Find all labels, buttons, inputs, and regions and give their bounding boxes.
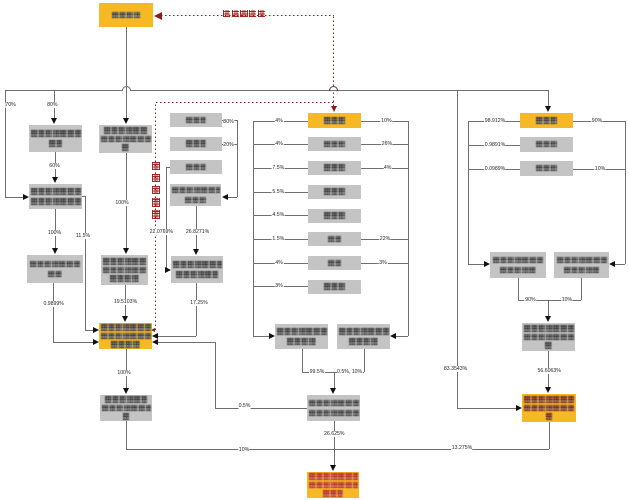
wire row1 r bbox=[361, 121, 408, 122]
red text 担任副总裁 bbox=[223, 10, 230, 17]
label 99.5% bbox=[309, 369, 325, 375]
box 芯空间（浙江）股权投资有限公司 bbox=[522, 323, 575, 351]
wire left person bus v bbox=[253, 121, 254, 337]
label 4.5% bbox=[272, 212, 285, 218]
label 0.9891% bbox=[484, 142, 505, 148]
box 倪鹏飞 bbox=[170, 160, 222, 174]
box 宁波芯空间造芯创业投资合伙企业 bbox=[522, 394, 576, 422]
arrowhead d (126,254.5) bbox=[123, 248, 129, 254]
label 11.5% bbox=[75, 233, 90, 239]
label 90% bbox=[591, 118, 602, 124]
wire 上海芯齐 down bbox=[334, 421, 335, 449]
label 100% bbox=[47, 230, 61, 236]
wire right person bus v bbox=[408, 121, 409, 337]
arrowhead d (548,393.5) bbox=[545, 387, 551, 393]
wire 83.3543% horiz bbox=[457, 408, 516, 409]
arrowhead l (222,197) bbox=[222, 194, 228, 200]
arrowhead l (152,342) bbox=[152, 339, 158, 345]
arrowhead d (548,112) bbox=[545, 106, 551, 112]
box 吴莎莉 bbox=[520, 161, 573, 176]
box 肖凯 bbox=[308, 232, 361, 246]
label 4% bbox=[275, 141, 284, 147]
wire 聚源盛鑫 down bbox=[126, 421, 127, 449]
arrowhead r (29,197) bbox=[23, 194, 29, 200]
wire 26.8271% bbox=[196, 206, 197, 250]
label 83.3543% bbox=[443, 366, 467, 372]
label 0.0989% bbox=[484, 166, 505, 172]
wire 倪伟标 80% h bbox=[222, 120, 237, 121]
box 中芯国际集成电路制造（上海）有限公司 bbox=[101, 255, 148, 285]
wire 聚芯 down bbox=[581, 278, 582, 300]
wire row3 r bbox=[361, 168, 408, 169]
arrowhead r (522,408) bbox=[516, 405, 522, 411]
red dashed vert to 吴永岗 lower bbox=[333, 92, 334, 106]
label 20% bbox=[223, 142, 234, 148]
label 26.8271% bbox=[185, 229, 209, 235]
wire trio row2 l bbox=[468, 145, 520, 146]
arrowhead d (548,322.5) bbox=[545, 316, 551, 322]
wire merge1 h bbox=[302, 372, 364, 373]
red text 法定代表人 vertical bbox=[152, 162, 160, 171]
arrowhead l (390,336) bbox=[390, 333, 396, 339]
label 7.5% bbox=[272, 165, 285, 171]
red arrow into 吴永岗 top bbox=[331, 106, 337, 112]
wire 造芯 down bbox=[549, 422, 550, 449]
label 22.0769% bbox=[149, 229, 173, 235]
red dashed vert to 吴永岗 upper bbox=[333, 15, 334, 86]
wire main branch y90 right bbox=[131, 90, 549, 91]
wire into 兴橙 bbox=[253, 336, 269, 337]
wire 0.5% horiz bbox=[215, 408, 307, 409]
wire 80% drop bbox=[54, 90, 55, 119]
line hop at x334 (red) bbox=[329, 86, 338, 91]
wire bottom h left bbox=[126, 449, 334, 450]
label 3% bbox=[379, 260, 388, 266]
wire row6 l bbox=[253, 239, 308, 240]
label 13.275% bbox=[451, 445, 472, 451]
arrowhead r (490,264) bbox=[484, 261, 490, 267]
arrowhead d (54,124.5) bbox=[51, 118, 57, 124]
box 宁波月湖盛园文化发展有限公司 bbox=[29, 184, 82, 209]
label 26% bbox=[381, 141, 392, 147]
label 100% bbox=[117, 370, 131, 376]
wire 19.5103% bbox=[125, 285, 126, 317]
arrowhead d (333.5,471.5) bbox=[330, 465, 336, 471]
wire 倪鹏飞 stub bbox=[166, 167, 170, 168]
label 70% bbox=[5, 102, 16, 108]
wire 长芯 down bbox=[518, 278, 519, 300]
red dashed 担任副总裁 horiz bbox=[161, 15, 334, 16]
wire 0.5% vert bbox=[215, 342, 216, 408]
wire trio row1 l bbox=[468, 121, 520, 122]
box 汪时辉 bbox=[308, 161, 361, 175]
wire 0.9899% vert bbox=[53, 283, 54, 342]
wire 11.5% vert bbox=[85, 196, 86, 330]
box 杭州繁礼电子信息合伙企业（有限合伙） bbox=[307, 472, 359, 498]
wire 56.6063% bbox=[548, 351, 549, 389]
wire row4 l bbox=[253, 192, 308, 193]
label 10% bbox=[238, 447, 249, 453]
wire row3 l bbox=[253, 168, 308, 169]
box 倪伟标 bbox=[170, 113, 222, 127]
wire into 本潮 h bbox=[228, 197, 237, 198]
box 芯空间控股有限公司 bbox=[27, 255, 83, 283]
box 宁波通业丰投资管理有限公司 bbox=[171, 256, 223, 283]
box 宁波长芯企业管理合伙企业 bbox=[490, 252, 546, 278]
box 孙玉华 bbox=[308, 137, 361, 151]
wire row8 l bbox=[253, 286, 308, 287]
wire row1 l bbox=[253, 121, 308, 122]
wire bottom h right bbox=[334, 449, 550, 450]
wire row5 l bbox=[253, 215, 308, 216]
wire 100% left bbox=[55, 209, 56, 249]
wire 聚创 down bbox=[364, 349, 365, 372]
wire 60% bbox=[55, 152, 56, 178]
label 26.625% bbox=[324, 431, 345, 437]
arrowhead d (196,255.5) bbox=[193, 249, 199, 255]
label 10% bbox=[561, 297, 572, 303]
wire row7 l bbox=[253, 263, 308, 264]
wire into 聚芯 bbox=[615, 264, 625, 265]
wire trio row1 r bbox=[573, 121, 625, 122]
label 80% bbox=[47, 102, 58, 108]
wire 83.3543% long drop bbox=[457, 90, 458, 408]
wire 17.25% vert bbox=[196, 283, 197, 336]
arrowhead r (171,270) bbox=[165, 267, 171, 273]
wire 0.5% horiz2 bbox=[158, 342, 215, 343]
box 中芯集电投资（上海）有限公司 bbox=[99, 125, 152, 153]
arrowhead d (126,394.5) bbox=[123, 388, 129, 394]
wire 中芯国际 down bbox=[126, 27, 127, 119]
label 22% bbox=[379, 236, 390, 242]
wire 11.5% horiz bbox=[85, 330, 93, 331]
line hop at x126 bbox=[122, 86, 131, 91]
wire 11.5% stub bbox=[82, 196, 85, 197]
wire trio row3 r bbox=[573, 169, 625, 170]
label 0.5%, 10% bbox=[337, 369, 363, 375]
label 56.6063% bbox=[537, 368, 561, 374]
wire 22.0769% vert bbox=[166, 167, 167, 270]
arrowhead d (333.5,394.5) bbox=[330, 388, 336, 394]
wire row2 l bbox=[253, 144, 308, 145]
wire merge1 v bbox=[334, 372, 335, 389]
wire 达慧勇 drop bbox=[548, 90, 549, 107]
label 100% bbox=[115, 200, 129, 206]
label 80% bbox=[223, 119, 234, 125]
wire into 杭州 bbox=[334, 449, 335, 466]
arrowhead d (55,183.5) bbox=[52, 177, 58, 183]
label 60% bbox=[49, 163, 60, 169]
box 赵雷 bbox=[308, 256, 361, 270]
label 10% bbox=[381, 118, 392, 124]
wire trio bus r v bbox=[625, 121, 626, 264]
box 共青城兴橙投资合伙企业 bbox=[275, 324, 328, 349]
box 吴永岗 bbox=[308, 113, 361, 129]
label 19.5103% bbox=[113, 299, 137, 305]
box 共青城聚创投资合伙企业 bbox=[337, 324, 390, 349]
box 聚源盛鑫投资（宁波）有限公司 bbox=[100, 395, 152, 421]
wire 17.25% horiz bbox=[158, 336, 196, 337]
arrowhead d (55,254.5) bbox=[52, 248, 58, 254]
label 0.5% bbox=[238, 403, 251, 409]
wire left 70% horiz bbox=[5, 197, 23, 198]
wire left 70% drop bbox=[5, 90, 6, 197]
arrowhead l (152,336) bbox=[152, 333, 158, 339]
red arrow into 中芯聚源 top right bbox=[151, 328, 155, 332]
wire row7 r bbox=[361, 263, 408, 264]
label 1.5% bbox=[272, 236, 285, 242]
label 0.9899% bbox=[43, 301, 64, 307]
label 5.5% bbox=[272, 189, 285, 195]
red arrow into 中芯国际 bbox=[154, 12, 162, 20]
box 王心然 bbox=[308, 209, 361, 223]
arrowhead d (125,322.5) bbox=[122, 316, 128, 322]
label 4% bbox=[383, 165, 392, 171]
box 达慧勇 bbox=[520, 113, 573, 129]
wire into 聚创 bbox=[396, 336, 408, 337]
box 上海芯齐投资中心（有限合伙） bbox=[307, 395, 360, 421]
label 90% bbox=[525, 297, 536, 303]
label 3% bbox=[275, 283, 284, 289]
arrowhead d (126,124.5) bbox=[123, 118, 129, 124]
wire 兴橙 down bbox=[302, 349, 303, 372]
box 严颖超 bbox=[520, 137, 573, 152]
wire merge2 h bbox=[518, 300, 581, 301]
box 汪伟革 bbox=[170, 137, 222, 151]
box 邵忠乐 bbox=[308, 185, 361, 199]
wire row2 r bbox=[361, 144, 408, 145]
wire trio row3 l bbox=[468, 169, 520, 170]
red dashed 法定代表人 horiz bbox=[156, 102, 335, 103]
label 98.912% bbox=[484, 118, 505, 124]
arrowhead l (609,264) bbox=[609, 261, 615, 267]
arrowhead r (99,342) bbox=[93, 339, 99, 345]
wire 80/20 bus v bbox=[237, 120, 238, 197]
arrowhead r (275,336) bbox=[269, 333, 275, 339]
label 10% bbox=[594, 166, 605, 172]
wire trio bus l v bbox=[468, 121, 469, 264]
label 4% bbox=[275, 118, 284, 124]
box 中芯聚源私募基金管理（上海）有限公司 bbox=[99, 323, 152, 349]
label 4% bbox=[275, 260, 284, 266]
wire 100% mid bbox=[126, 153, 127, 249]
box 宁波市海曙月湖宾馆 bbox=[29, 125, 82, 152]
label 17.25% bbox=[190, 300, 209, 306]
box 绍兴聚芯企业管理合伙企业 bbox=[554, 252, 609, 278]
box 张小刚 bbox=[308, 280, 361, 294]
wire merge2 v bbox=[548, 300, 549, 317]
wire 汪伟革 20% h bbox=[222, 144, 237, 145]
wire 0.9899% horiz bbox=[53, 342, 93, 343]
arrowhead r (99,330) bbox=[93, 327, 99, 333]
wire main branch y90 left bbox=[5, 90, 122, 91]
wire row6 r bbox=[361, 239, 408, 240]
red dashed 法定代表人 vert bbox=[155, 102, 156, 330]
box 中芯国际 bbox=[99, 3, 153, 27]
wire into 长芯 bbox=[468, 264, 484, 265]
box 本潮控股集团有限公司 bbox=[170, 184, 221, 206]
wire 100% into 聚源盛鑫 bbox=[126, 349, 127, 389]
